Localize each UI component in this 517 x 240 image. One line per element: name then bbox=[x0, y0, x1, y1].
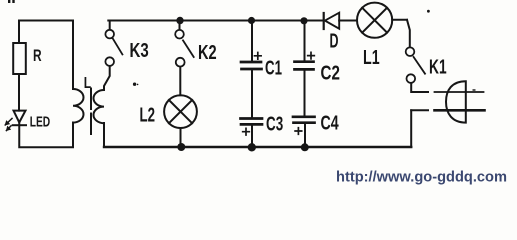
svg-text:K1: K1 bbox=[429, 57, 447, 79]
svg-text:C2: C2 bbox=[321, 63, 340, 85]
svg-text:L1: L1 bbox=[363, 47, 380, 69]
svg-text:K3: K3 bbox=[130, 40, 149, 62]
svg-text:R: R bbox=[33, 46, 42, 65]
svg-text:http://www.go-gddq.com: http://www.go-gddq.com bbox=[336, 170, 507, 186]
svg-text:L: L bbox=[84, 75, 92, 92]
svg-text:K2: K2 bbox=[198, 42, 217, 64]
svg-text:C1: C1 bbox=[265, 58, 282, 80]
svg-text:LED: LED bbox=[30, 113, 51, 130]
svg-text:C4: C4 bbox=[321, 113, 340, 135]
svg-text:D: D bbox=[330, 31, 339, 53]
svg-text:L2: L2 bbox=[140, 105, 156, 127]
svg-text:C3: C3 bbox=[266, 114, 283, 136]
